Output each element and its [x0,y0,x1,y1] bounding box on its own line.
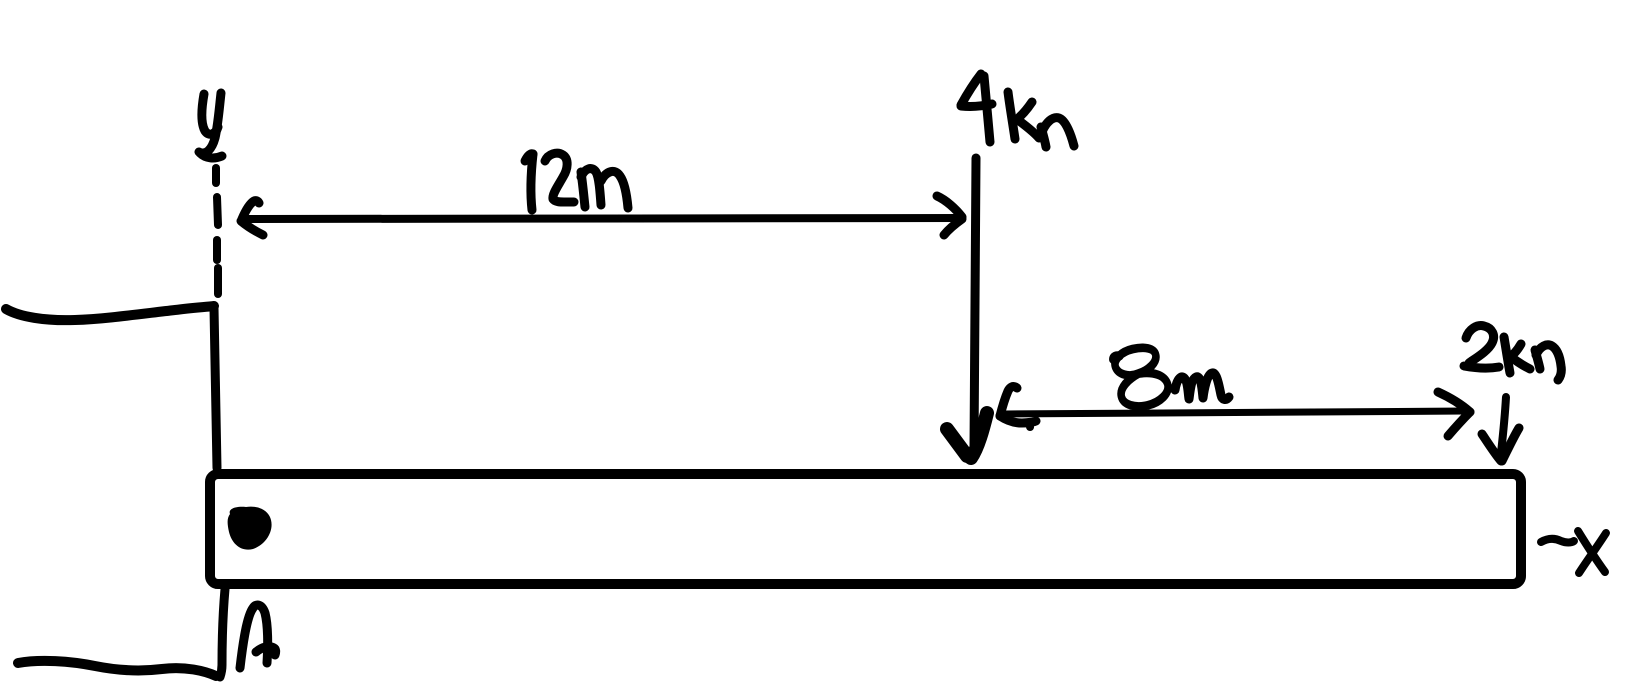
label 12m [525,153,628,210]
wall bottom wavy edge [18,661,216,676]
12m dimension line [248,218,961,219]
axis label y [199,93,222,158]
force 2kn arrow shaft [1501,397,1506,453]
8m right arrowhead [1438,392,1470,436]
12m left arrowhead [241,201,263,235]
wall top wavy edge [6,306,214,320]
8m dimension line [1006,411,1466,414]
wall vertical line upper [214,308,217,468]
8m left arrowhead [1000,387,1036,431]
force 4kn arrowhead [947,413,987,458]
wall vertical line lower [220,589,225,677]
label 4kn [961,74,1074,147]
force 4kn arrow shaft [974,158,976,448]
label -x [1541,531,1606,573]
point blob inside beam [228,507,272,550]
force 2kn arrowhead [1482,428,1519,461]
dashed y axis line [216,168,218,294]
beam rectangle [210,474,1521,584]
label 2kn [1464,326,1561,380]
12m right arrowhead [937,196,962,235]
label A [240,605,276,668]
label 8m [1112,343,1229,410]
